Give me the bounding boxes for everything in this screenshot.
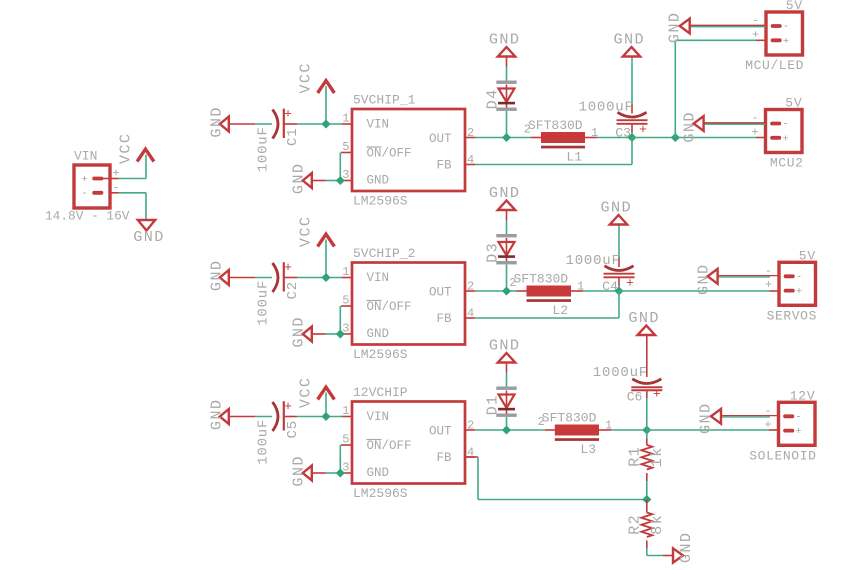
svg-text:100uF: 100uF: [256, 419, 272, 465]
svg-text:GND: GND: [601, 199, 633, 217]
svg-text:FB: FB: [436, 451, 452, 465]
svg-text:+: +: [783, 36, 789, 48]
svg-text:2: 2: [524, 123, 531, 137]
svg-text:GND: GND: [489, 184, 521, 202]
svg-text:+: +: [284, 260, 292, 275]
svg-text:1k: 1k: [648, 446, 666, 467]
svg-text:VIN: VIN: [367, 118, 390, 132]
svg-text:14.8V - 16V: 14.8V - 16V: [45, 209, 130, 224]
svg-text:VIN: VIN: [74, 149, 97, 164]
svg-text:L1: L1: [566, 150, 582, 165]
svg-text:+: +: [796, 286, 802, 298]
svg-text:2: 2: [538, 415, 545, 429]
svg-text:ON/OFF: ON/OFF: [367, 300, 412, 314]
svg-text:5V: 5V: [786, 0, 803, 13]
svg-text:LM2596S: LM2596S: [353, 486, 408, 501]
svg-text:100uF: 100uF: [256, 126, 272, 172]
svg-text:SFT830D: SFT830D: [542, 411, 597, 426]
svg-text:1000uF: 1000uF: [593, 365, 648, 381]
svg-text:+: +: [751, 125, 758, 139]
svg-text:SERVOS: SERVOS: [767, 308, 817, 323]
svg-text:D1: D1: [483, 394, 501, 415]
svg-text:8k: 8k: [648, 514, 666, 535]
svg-text:1000uF: 1000uF: [566, 253, 621, 269]
svg-text:+: +: [764, 418, 771, 432]
svg-text:GND: GND: [697, 402, 715, 434]
svg-text:GND: GND: [695, 263, 713, 295]
svg-text:SFT830D: SFT830D: [514, 272, 569, 287]
svg-text:GND: GND: [208, 106, 226, 138]
svg-text:L3: L3: [580, 442, 596, 457]
svg-text:GND: GND: [133, 228, 165, 246]
svg-text:GND: GND: [367, 174, 390, 188]
svg-text:+: +: [639, 122, 647, 137]
svg-text:C5: C5: [285, 420, 301, 438]
svg-text:VIN: VIN: [367, 271, 390, 285]
svg-text:+: +: [795, 426, 801, 438]
svg-text:LM2596S: LM2596S: [353, 194, 408, 209]
svg-text:ON/OFF: ON/OFF: [367, 439, 412, 453]
svg-text:MCU2: MCU2: [770, 156, 804, 171]
svg-text:GND: GND: [367, 466, 390, 480]
svg-text:-: -: [782, 119, 788, 131]
svg-text:GND: GND: [681, 111, 699, 143]
svg-text:ON/OFF: ON/OFF: [367, 147, 412, 161]
svg-text:GND: GND: [489, 31, 521, 49]
svg-text:VCC: VCC: [297, 216, 315, 248]
svg-text:GND: GND: [208, 260, 226, 292]
svg-text:GND: GND: [489, 337, 521, 355]
svg-text:R1: R1: [626, 446, 644, 467]
svg-text:C2: C2: [285, 281, 301, 299]
svg-text:1000uF: 1000uF: [579, 100, 634, 116]
svg-text:C6: C6: [627, 390, 643, 405]
svg-text:GND: GND: [367, 327, 390, 341]
svg-text:R2: R2: [626, 514, 644, 535]
svg-text:+: +: [782, 133, 788, 145]
svg-text:C1: C1: [285, 128, 301, 146]
svg-text:5V: 5V: [785, 96, 802, 111]
svg-text:OUT: OUT: [429, 132, 452, 146]
svg-text:5VCHIP_2: 5VCHIP_2: [353, 246, 415, 261]
svg-text:VCC: VCC: [297, 62, 315, 94]
svg-text:GND: GND: [666, 12, 684, 44]
svg-text:GND: GND: [677, 532, 695, 564]
svg-text:D3: D3: [483, 242, 501, 263]
svg-text:FB: FB: [436, 312, 452, 326]
svg-text:VIN: VIN: [367, 410, 390, 424]
svg-text:D4: D4: [483, 88, 501, 109]
svg-text:MCU/LED: MCU/LED: [745, 58, 804, 73]
svg-text:GND: GND: [290, 316, 308, 348]
svg-text:12VCHIP: 12VCHIP: [353, 385, 408, 400]
svg-text:5VCHIP_1: 5VCHIP_1: [353, 93, 416, 108]
svg-text:SOLENOID: SOLENOID: [749, 448, 816, 463]
svg-text:+: +: [284, 399, 292, 414]
svg-text:-: -: [796, 271, 802, 283]
svg-text:VCC: VCC: [297, 377, 315, 409]
svg-text:12V: 12V: [790, 388, 816, 403]
svg-text:GND: GND: [628, 309, 660, 327]
svg-text:FB: FB: [436, 159, 452, 173]
svg-text:SFT830D: SFT830D: [528, 118, 583, 133]
svg-text:LM2596S: LM2596S: [353, 347, 408, 362]
svg-text:-: -: [795, 411, 801, 423]
svg-text:L2: L2: [552, 303, 568, 318]
svg-text:100uF: 100uF: [256, 280, 272, 326]
svg-text:OUT: OUT: [429, 286, 452, 300]
svg-text:+: +: [653, 387, 661, 402]
svg-text:GND: GND: [290, 163, 308, 195]
svg-text:VCC: VCC: [117, 133, 135, 165]
svg-text:+: +: [81, 174, 87, 186]
svg-text:GND: GND: [208, 399, 226, 431]
svg-text:OUT: OUT: [429, 425, 452, 439]
svg-text:2: 2: [509, 276, 516, 290]
svg-text:5V: 5V: [799, 248, 816, 263]
svg-text:GND: GND: [290, 455, 308, 487]
svg-text:+: +: [765, 278, 772, 292]
svg-text:-: -: [783, 21, 789, 33]
svg-text:+: +: [284, 107, 292, 122]
svg-text:-: -: [81, 188, 87, 200]
svg-text:GND: GND: [614, 31, 646, 49]
svg-text:+: +: [626, 276, 634, 291]
